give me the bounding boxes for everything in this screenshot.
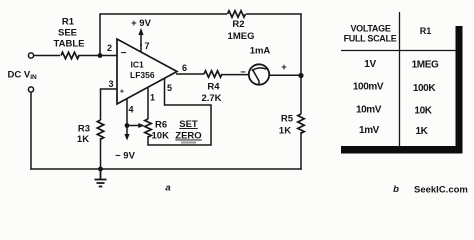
svg-text:10mV: 10mV [356, 105, 382, 116]
wire node to R5 [300, 76, 302, 115]
wire pin1 to R6 [147, 87, 149, 119]
svg-text:5: 5 [167, 83, 172, 93]
svg-text:b: b [393, 184, 399, 195]
svg-text:1MEG: 1MEG [228, 31, 255, 42]
junction node Vminus [125, 123, 130, 128]
table header underline [341, 50, 456, 52]
svg-text:1K: 1K [77, 134, 89, 145]
wire input minus down [30, 92, 32, 169]
wire pin5 loop [148, 78, 211, 145]
resistor R1 [61, 52, 79, 58]
svg-text:6: 6 [182, 63, 187, 73]
power -9V arrow [124, 126, 129, 141]
svg-text:FULL SCALE: FULL SCALE [344, 34, 397, 44]
svg-text:3: 3 [108, 79, 113, 89]
wire pin7 [140, 44, 142, 53]
svg-text:+: + [120, 87, 125, 96]
resistor R4 [204, 71, 222, 77]
table thick right bar [456, 26, 463, 154]
meter M1 [249, 64, 269, 84]
op-amp U1 triangle [117, 39, 177, 104]
table thick bottom bar [341, 146, 463, 154]
svg-text:SeekIC.com: SeekIC.com [414, 185, 468, 196]
table divider [399, 12, 401, 146]
svg-text:10K: 10K [414, 106, 432, 117]
svg-text:1: 1 [150, 93, 155, 103]
ground [95, 169, 107, 187]
svg-text:1K: 1K [416, 126, 429, 137]
svg-text:4: 4 [129, 105, 134, 115]
svg-text:1mV: 1mV [359, 125, 380, 136]
wire R1 to pin2 [78, 55, 117, 57]
wire feedback vertical [99, 14, 101, 56]
wire R5 to bottom bus [300, 132, 302, 170]
svg-text:100mV: 100mV [353, 82, 384, 93]
svg-text:1K: 1K [279, 126, 291, 137]
wire top bus left of R2 [99, 13, 227, 15]
potentiometer R6 [145, 119, 151, 137]
svg-text:2: 2 [107, 43, 112, 53]
svg-text:1mA: 1mA [250, 46, 271, 57]
resistor R2 [228, 11, 246, 17]
wire bottom bus [30, 168, 301, 170]
wire top bus right of R2 [246, 13, 302, 15]
watermark smudge [181, 142, 196, 144]
svg-text:− 9V: − 9V [115, 151, 135, 162]
junction node ground [98, 167, 103, 172]
wire R3 to bottom bus [100, 138, 102, 169]
svg-text:10K: 10K [152, 131, 170, 142]
svg-text:1V: 1V [364, 59, 376, 70]
svg-text:ZERO: ZERO [175, 131, 201, 142]
svg-text:VOLTAGE: VOLTAGE [350, 24, 390, 34]
svg-text:+ 9V: + 9V [131, 18, 151, 29]
svg-text:TABLE: TABLE [54, 39, 85, 50]
svg-text:−: − [121, 48, 127, 59]
wire pin6 to R4 [176, 73, 204, 75]
junction node inverting input [98, 53, 103, 58]
wire R4 to meter [222, 74, 249, 76]
svg-text:1MEG: 1MEG [412, 60, 439, 71]
svg-text:LF356: LF356 [130, 70, 155, 80]
svg-text:SET: SET [179, 119, 198, 130]
wire pin4 [126, 98, 128, 126]
svg-text:7: 7 [145, 41, 150, 51]
svg-text:R3: R3 [78, 124, 90, 135]
resistor R5 [298, 114, 304, 133]
svg-text:SEE: SEE [58, 28, 77, 39]
wire right vertical upper [300, 14, 302, 76]
R6 wiper arrow [127, 123, 145, 128]
wire input to R1 [34, 55, 60, 57]
terminal input minus [28, 87, 33, 92]
resistor R3 [97, 120, 103, 139]
power +9V arrow [138, 28, 143, 46]
svg-text:R6: R6 [155, 120, 167, 131]
svg-text:+: + [281, 62, 287, 73]
svg-text:R5: R5 [281, 114, 294, 125]
svg-text:IC1: IC1 [131, 60, 145, 70]
svg-text:−: − [240, 67, 246, 78]
wire pin3 stub [101, 89, 118, 120]
svg-text:100K: 100K [413, 83, 436, 94]
svg-text:R1: R1 [62, 17, 75, 28]
wire meter to node [269, 74, 301, 76]
svg-text:DC VIN: DC VIN [8, 70, 38, 82]
svg-text:R4: R4 [207, 82, 220, 93]
terminal input plus [28, 53, 33, 58]
svg-text:R1: R1 [420, 26, 432, 36]
svg-text:a: a [165, 183, 170, 194]
svg-text:2.7K: 2.7K [201, 93, 221, 104]
svg-text:R2: R2 [232, 19, 244, 30]
junction node output [298, 73, 303, 78]
